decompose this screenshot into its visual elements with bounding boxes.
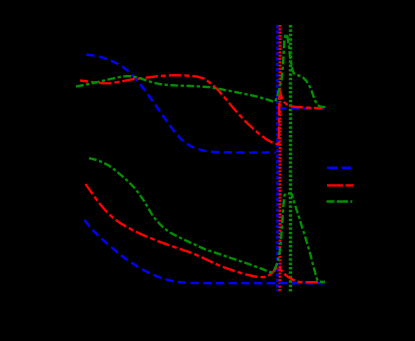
bottom panel: red dash-dot decaying curve with small bump [86, 184, 323, 282]
legend sample: blue dashed [327, 166, 351, 169]
top panel: red dash-dot curve with spike [80, 75, 323, 144]
top panel: green dash-dot curve with tall spike [76, 34, 326, 107]
top panel: blue flat segment after step [278, 107, 325, 109]
legend sample: green dash-dot [327, 200, 353, 203]
vertical marker line blue (stimulus time) [276, 25, 279, 291]
bottom panel: green dash-dot decaying curve with tall spike [89, 158, 325, 282]
legend sample: red dash-dot [327, 184, 354, 186]
bottom panel: blue dashed decaying curve [85, 220, 325, 283]
vertical marker line red (dotted) [279, 25, 282, 292]
top panel: blue dashed sigmoid curve [84, 55, 276, 153]
vertical marker line green (dotted) [289, 25, 292, 292]
